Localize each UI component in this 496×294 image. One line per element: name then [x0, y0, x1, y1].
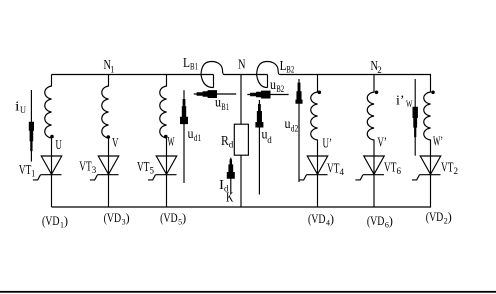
svg-text:(VD: (VD — [160, 210, 178, 225]
current arrow line i_U — [30, 90, 32, 162]
svg-text:d1: d1 — [194, 133, 202, 143]
dot winding U — [50, 135, 54, 139]
svg-text:(VD: (VD — [42, 213, 60, 228]
svg-text:VT: VT — [441, 160, 454, 175]
svg-text:U: U — [56, 138, 62, 153]
svg-text:U: U — [20, 105, 26, 115]
wire VT4 cathode to bottom bus — [317, 156, 319, 207]
svg-text:L: L — [183, 56, 190, 71]
wire VT6 cathode to bottom bus — [373, 156, 375, 207]
svg-text:B2: B2 — [286, 65, 294, 75]
wire bottom bus — [52, 206, 432, 208]
svg-text:(VD: (VD — [367, 213, 385, 228]
svg-text:): ) — [126, 210, 130, 225]
svg-text:u: u — [285, 117, 291, 132]
svg-text:V: V — [112, 136, 119, 151]
svg-text:u: u — [215, 96, 221, 111]
wire VT2 cathode to bottom bus — [430, 156, 432, 207]
wire VT5 cathode to bottom bus — [166, 156, 168, 207]
dot winding W' — [431, 91, 435, 95]
resistor R_d — [234, 124, 248, 155]
winding U' (phase U', right star) — [311, 75, 318, 157]
svg-text:5: 5 — [150, 166, 155, 176]
svg-text:B1: B1 — [221, 102, 229, 112]
voltage arrow line u_B2 — [247, 94, 288, 96]
wire VT3 cathode to bottom bus — [108, 156, 110, 207]
wire top bus middle segment (N node) — [224, 74, 268, 76]
svg-text:VT: VT — [327, 161, 340, 176]
winding V' (phase V', right star) — [367, 75, 374, 157]
thyristor VT6 — [355, 156, 384, 180]
reactor L_B2 loop — [257, 62, 280, 88]
svg-text:U’: U’ — [323, 137, 333, 152]
arrowhead I_d (up) — [227, 159, 235, 179]
winding U (phase U, left star) — [45, 75, 52, 157]
svg-text:i’: i’ — [396, 94, 405, 109]
arrowhead i'_W (down) — [413, 107, 418, 137]
svg-text:d: d — [229, 140, 234, 150]
svg-text:VT: VT — [384, 160, 397, 175]
svg-text:i: i — [15, 100, 20, 115]
thyristor VT1 — [33, 156, 62, 180]
svg-text:(VD: (VD — [308, 211, 326, 226]
svg-text:): ) — [330, 211, 334, 226]
svg-text:VT: VT — [137, 160, 150, 175]
arrowhead u_B2 (left) — [250, 91, 270, 99]
wire R_d to K node / bottom bus — [240, 155, 242, 207]
wire N node to R_d — [240, 75, 242, 125]
svg-text:d: d — [267, 135, 272, 145]
svg-text:K: K — [226, 191, 233, 206]
arrowhead i_U (down) — [29, 122, 34, 151]
svg-text:): ) — [182, 210, 186, 225]
svg-text:VT: VT — [19, 163, 32, 178]
svg-text:6: 6 — [397, 166, 402, 176]
svg-text:): ) — [64, 213, 68, 228]
winding W' (phase W', right star) — [424, 75, 431, 157]
voltage arrow line u_d1 — [183, 90, 185, 183]
winding W (phase W, left star) — [160, 75, 167, 157]
current arrow line I_d — [230, 158, 232, 194]
thyristor VT5 — [148, 156, 177, 180]
svg-text:VT: VT — [79, 160, 92, 175]
voltage arrow line u_d — [258, 100, 260, 195]
arrowhead u_d1 (up) — [180, 99, 188, 124]
thyristor VT4 — [299, 156, 328, 180]
dot winding U' — [318, 91, 322, 95]
voltage arrow line u_B1 — [194, 93, 236, 95]
wire top bus right segment (N2 side) — [280, 74, 431, 76]
svg-text:V’: V’ — [377, 136, 387, 151]
winding V (phase V, left star) — [102, 75, 109, 157]
arrowhead u_B1 (left) — [197, 90, 217, 98]
svg-text:W’: W’ — [433, 135, 443, 150]
thyristor VT2 — [412, 156, 441, 180]
wire top bus left segment (N1 side) — [52, 74, 214, 76]
svg-text:3: 3 — [92, 165, 97, 175]
voltage arrow line u_d2 — [298, 79, 300, 182]
svg-text:4: 4 — [340, 167, 345, 177]
dot winding W — [164, 135, 168, 139]
svg-text:B1: B1 — [190, 62, 198, 72]
svg-text:2: 2 — [377, 65, 382, 75]
arrowhead u_d2 (up) — [295, 83, 302, 104]
bottom page border rule — [0, 291, 496, 293]
svg-text:u: u — [270, 78, 276, 93]
svg-text:W: W — [406, 99, 413, 109]
svg-text:(VD: (VD — [426, 209, 444, 224]
thyristor VT3 — [90, 156, 119, 180]
wire VT1 cathode to bottom bus — [51, 156, 53, 207]
dot winding V — [107, 135, 111, 139]
svg-text:B2: B2 — [276, 84, 284, 94]
dot winding V' — [375, 91, 379, 95]
reactor L_B1 loop — [201, 62, 224, 88]
svg-text:): ) — [389, 213, 393, 228]
current arrow line i'_W — [414, 79, 416, 156]
svg-text:): ) — [448, 209, 452, 224]
arrowhead u_d (up) — [255, 104, 263, 128]
svg-text:W: W — [168, 135, 175, 150]
svg-text:1: 1 — [31, 169, 35, 179]
svg-text:N: N — [238, 58, 246, 73]
svg-text:u: u — [188, 127, 194, 142]
svg-text:2: 2 — [454, 166, 459, 176]
svg-text:d2: d2 — [291, 124, 299, 134]
svg-text:(VD: (VD — [104, 210, 122, 225]
svg-text:1: 1 — [110, 65, 114, 75]
